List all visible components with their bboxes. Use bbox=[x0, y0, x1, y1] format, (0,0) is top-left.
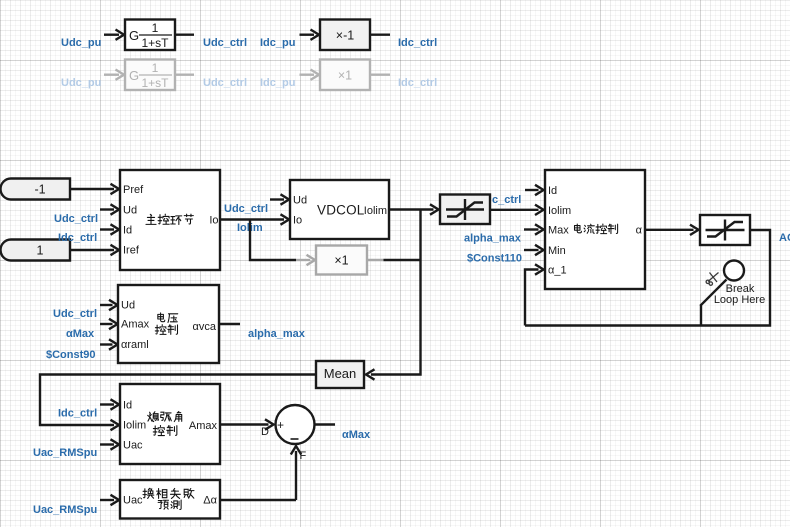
block U1 main control 主控环节 bbox=[120, 170, 220, 270]
svg-text:Iref: Iref bbox=[123, 245, 140, 257]
svg-text:alpha_max: alpha_max bbox=[248, 328, 306, 340]
svg-text:Iolim: Iolim bbox=[123, 420, 146, 432]
svg-text:Ud: Ud bbox=[121, 300, 135, 312]
wire multiplier output bbox=[370, 34, 390, 36]
faded multiplier block x1 (mid) bbox=[316, 246, 367, 275]
svg-text:Uac: Uac bbox=[123, 440, 143, 452]
svg-text:Udc_pu: Udc_pu bbox=[61, 77, 101, 89]
svg-text:Uac: Uac bbox=[123, 495, 143, 507]
svg-text:×1: ×1 bbox=[334, 254, 348, 268]
wire stub Id gamma control bbox=[100, 403, 114, 405]
svg-text:α_1: α_1 bbox=[548, 265, 567, 277]
block U2 VDCOL bbox=[290, 180, 389, 239]
svg-text:G: G bbox=[129, 68, 139, 83]
wire stub Amax bbox=[100, 323, 113, 325]
svg-text:$Const110: $Const110 bbox=[467, 253, 522, 265]
transfer-function block G1 : G 1/(1+sT) bbox=[125, 20, 175, 51]
wire Io to VDCOL bbox=[220, 218, 284, 220]
limiter L1 (hard limiter after VDCOL) bbox=[440, 195, 490, 225]
svg-text:Amax: Amax bbox=[121, 319, 150, 331]
wire 1 to Iref bbox=[70, 249, 114, 251]
wire into G1 bbox=[104, 34, 119, 36]
wire stub Min bbox=[524, 249, 539, 251]
svg-text:α: α bbox=[636, 225, 643, 237]
svg-text:1: 1 bbox=[152, 21, 159, 35]
svg-text:Id: Id bbox=[548, 185, 557, 197]
wire x1 mid to trunk bbox=[384, 259, 422, 261]
svg-text:-1: -1 bbox=[34, 183, 45, 197]
wire into multiplier bbox=[300, 34, 315, 36]
wire stub Uac gamma control bbox=[100, 443, 114, 445]
svg-text:Iolim: Iolim bbox=[548, 205, 571, 217]
svg-text:αMax: αMax bbox=[342, 429, 371, 441]
faded wire x1 output bbox=[370, 73, 390, 75]
svg-text:Ud: Ud bbox=[293, 195, 307, 207]
svg-text:Id: Id bbox=[123, 400, 132, 412]
wire avca output bbox=[219, 323, 240, 325]
svg-text:Udc_ctrl: Udc_ctrl bbox=[54, 213, 98, 225]
svg-text:Idc_ctrl: Idc_ctrl bbox=[58, 408, 97, 420]
multiplier block x-1 bbox=[320, 20, 370, 51]
svg-text:Udc_ctrl: Udc_ctrl bbox=[203, 37, 247, 49]
constant -1 capsule bbox=[1, 179, 71, 200]
svg-text:1: 1 bbox=[37, 244, 44, 258]
wire limiter to Iolim of current control bbox=[490, 209, 539, 211]
svg-text:1: 1 bbox=[152, 61, 159, 75]
svg-text:Uac_RMSpu: Uac_RMSpu bbox=[33, 504, 97, 516]
faded wire G2 output bbox=[175, 73, 194, 75]
svg-text:Max: Max bbox=[548, 225, 569, 237]
faded wire into x1 bbox=[300, 73, 315, 75]
svg-text:alpha_max: alpha_max bbox=[464, 233, 522, 245]
block U3 current control 电流控制 bbox=[545, 170, 645, 289]
wire stub Ud bbox=[100, 208, 114, 210]
constant 1 capsule bbox=[1, 240, 71, 261]
faded transfer-function block G2 bbox=[125, 60, 175, 91]
svg-text:Idc_pu: Idc_pu bbox=[260, 77, 295, 89]
svg-text:Io: Io bbox=[209, 215, 218, 227]
svg-text:×-1: ×-1 bbox=[336, 29, 354, 43]
wire branch down to faded x1 bbox=[250, 220, 296, 261]
svg-text:+: + bbox=[277, 418, 284, 432]
faded wire into G2 bbox=[104, 73, 119, 75]
svg-text:AOR: AOR bbox=[779, 232, 790, 244]
svg-text:Udc_pu: Udc_pu bbox=[61, 37, 101, 49]
svg-text:Udc_ctrl: Udc_ctrl bbox=[53, 308, 97, 320]
svg-text:Δα: Δα bbox=[203, 495, 217, 507]
wire Amax to summer bbox=[220, 423, 269, 425]
wire limiter2 output + feedback loop bbox=[525, 230, 770, 326]
svg-text:αraml: αraml bbox=[121, 339, 149, 351]
svg-text:1+sT: 1+sT bbox=[141, 76, 169, 90]
wire summer output bbox=[315, 423, 336, 425]
svg-text:Mean: Mean bbox=[324, 366, 357, 381]
wire stub Ud voltage control bbox=[100, 304, 113, 306]
wire alpha to limiter2 bbox=[645, 229, 694, 231]
summing junction bbox=[276, 405, 315, 444]
wire stub araml bbox=[100, 343, 113, 345]
wire feedback into alpha_1 bbox=[525, 270, 539, 326]
block U4 voltage control 电压控制 bbox=[118, 285, 219, 363]
svg-text:Idc_ctrl: Idc_ctrl bbox=[398, 77, 437, 89]
wire G1 output bbox=[175, 34, 194, 36]
wire from prediction up to summer bbox=[295, 451, 297, 500]
wire Mean output loop to Iolim of gamma control bbox=[40, 375, 316, 426]
faded wire into x1 mid bbox=[296, 259, 310, 261]
wire prediction output bbox=[220, 499, 296, 501]
svg-text:c_ctrl: c_ctrl bbox=[492, 194, 521, 206]
wire -1 to Pref bbox=[70, 188, 114, 190]
svg-text:Min: Min bbox=[548, 245, 566, 257]
wire Iolim output to limiter bbox=[389, 208, 434, 210]
wire stub Id current control bbox=[525, 189, 539, 191]
wire stub Uac prediction bbox=[100, 499, 114, 501]
svg-text:αvca: αvca bbox=[193, 321, 217, 333]
limiter L2 (hard limiter after current control) bbox=[700, 215, 750, 245]
svg-text:G: G bbox=[129, 28, 139, 43]
svg-text:Iolim: Iolim bbox=[364, 205, 387, 217]
svg-text:1+sT: 1+sT bbox=[141, 36, 169, 50]
svg-text:Pref: Pref bbox=[123, 184, 144, 196]
breaker: break loop here bbox=[700, 261, 765, 327]
faded multiplier block x1 bbox=[320, 60, 370, 91]
wire trunk down to Mean bbox=[371, 210, 421, 375]
wire stub Id bbox=[100, 228, 114, 230]
svg-text:Uac_RMSpu: Uac_RMSpu bbox=[33, 447, 97, 459]
block Mean bbox=[316, 361, 364, 388]
svg-text:αMax: αMax bbox=[66, 328, 95, 340]
svg-text:Loop Here: Loop Here bbox=[714, 294, 765, 306]
svg-text:×1: ×1 bbox=[338, 69, 352, 83]
svg-text:VDCOL: VDCOL bbox=[317, 203, 365, 218]
block U6 commutation failure prediction 换相失败预测 bbox=[120, 480, 220, 519]
svg-text:D: D bbox=[261, 426, 269, 438]
block U5 extinction angle control 熄弧角控制 bbox=[120, 384, 220, 464]
svg-text:Ud: Ud bbox=[123, 205, 137, 217]
svg-text:Io: Io bbox=[293, 215, 302, 227]
svg-text:Idc_ctrl: Idc_ctrl bbox=[398, 37, 437, 49]
svg-text:Idc_pu: Idc_pu bbox=[260, 37, 295, 49]
svg-text:Amax: Amax bbox=[189, 420, 218, 432]
svg-text:Udc_ctrl: Udc_ctrl bbox=[224, 203, 268, 215]
svg-text:Idc_ctrl: Idc_ctrl bbox=[58, 232, 97, 244]
wire stub VDCOL Ud bbox=[270, 198, 284, 200]
svg-text:$Const90: $Const90 bbox=[46, 349, 96, 361]
wire stub Max bbox=[524, 228, 539, 230]
svg-text:Udc_ctrl: Udc_ctrl bbox=[203, 77, 247, 89]
svg-text:Id: Id bbox=[123, 225, 132, 237]
faded wire x1 mid output bbox=[367, 259, 384, 261]
